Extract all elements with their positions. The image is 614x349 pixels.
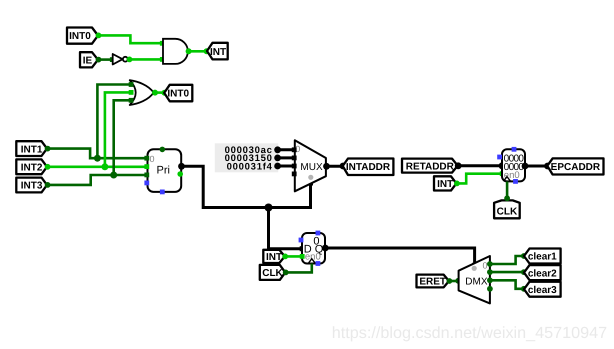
svg-text:DMX: DMX	[465, 276, 488, 287]
tunnel INT (bottom, to FF enable)	[263, 250, 285, 263]
wire DMX out3 to clear3	[487, 277, 527, 291]
svg-text:0: 0	[150, 154, 155, 164]
svg-text:ERET: ERET	[419, 277, 446, 288]
tunnel clear2	[524, 265, 561, 280]
tunnel INT3	[16, 178, 47, 193]
tunnel INT0 (input, top-left)	[67, 28, 98, 44]
svg-text:INTADDR: INTADDR	[346, 162, 391, 173]
Pri right enable-out dot	[177, 171, 183, 177]
svg-text:Pri: Pri	[157, 164, 170, 176]
register port squares	[512, 147, 517, 152]
tunnel ERET	[417, 275, 450, 288]
tunnel IE	[80, 52, 98, 67]
svg-text:https://blog.csdn.net/weixin_4: https://blog.csdn.net/weixin_45710947	[332, 324, 607, 342]
svg-text:CLK: CLK	[497, 206, 518, 217]
constant 00003150	[225, 153, 295, 164]
wire INT0 to AND input 1	[96, 33, 165, 46]
svg-text:INT: INT	[266, 252, 282, 263]
svg-text:0: 0	[313, 235, 319, 247]
tunnel INTADDR	[343, 159, 394, 176]
wire NOT out to AND input 2	[127, 57, 165, 63]
tunnel clear1	[524, 249, 561, 264]
demultiplexer DMX	[459, 256, 490, 303]
wire INT to FF en	[282, 254, 302, 260]
wire vertical INT3 branch to OR in3	[110, 100, 131, 178]
svg-text:0: 0	[483, 260, 488, 270]
wire vertical INT2 branch to OR in2	[101, 92, 131, 170]
svg-text:MUX: MUX	[300, 162, 323, 173]
wire Pri out to MUX select (bus)	[178, 163, 313, 212]
tunnel CLK (right)	[494, 200, 520, 218]
multiplexer MUX	[295, 140, 326, 191]
constant 000030ac	[215, 143, 295, 172]
tunnel INT1	[16, 141, 47, 156]
Pri port squares	[144, 156, 149, 161]
svg-text:clear3: clear3	[528, 285, 557, 296]
tunnel INTO (output of OR)	[164, 85, 192, 102]
wire DMX out1 to clear1	[487, 253, 527, 267]
svg-text:INT1: INT1	[21, 144, 43, 155]
D flip-flop U3	[302, 233, 325, 264]
tunnel clear3	[524, 282, 561, 297]
tunnel CLK (bottom-left)	[260, 265, 286, 280]
tunnel INT2	[16, 159, 47, 174]
wire IE to NOT	[96, 57, 115, 63]
wire OR out to INTO tunnel	[152, 90, 168, 96]
tunnel INT (output)	[207, 43, 228, 60]
svg-text:EPCADDR: EPCADDR	[551, 162, 601, 173]
svg-text:INT: INT	[437, 179, 453, 190]
wire FF Q to DMX select (bus)	[322, 245, 477, 268]
wire RETADDR to register D (bus)	[455, 162, 506, 169]
wire register Q to EPCADDR (bus)	[522, 163, 551, 170]
DMX out4 unconnected dot	[487, 286, 493, 292]
wire INT to register en	[454, 171, 505, 186]
wire INT3 to Pri in3	[45, 175, 147, 188]
svg-text:clear1: clear1	[528, 252, 557, 263]
register EPC	[502, 149, 525, 181]
svg-text:RETADDR: RETADDR	[406, 161, 455, 172]
AND gate U1	[163, 39, 188, 64]
priority encoder Pri	[148, 149, 182, 192]
svg-text:IE: IE	[83, 55, 93, 66]
wire INT1 to Pri in1	[45, 146, 147, 158]
NOT gate (inverter on IE)	[113, 54, 128, 65]
tunnel RETADDR	[402, 159, 458, 173]
svg-text:000031f4: 000031f4	[227, 162, 273, 173]
constant 000031f4	[227, 162, 295, 173]
tunnel EPCADDR	[547, 158, 603, 174]
MUX input squares	[292, 147, 297, 152]
svg-text:INT: INT	[210, 47, 226, 58]
wire DMX out2 to clear2	[487, 269, 527, 275]
svg-text:clear2: clear2	[528, 268, 557, 279]
wire CLK to FF clock	[283, 264, 312, 276]
tunnel INT (right, to register enable)	[434, 176, 456, 190]
wire AND out to INT tunnel	[186, 48, 210, 54]
wire CLK to register clock	[504, 182, 510, 202]
svg-text:CLK: CLK	[262, 268, 283, 279]
svg-text:INT0: INT0	[69, 31, 91, 42]
svg-text:INT2: INT2	[21, 163, 43, 174]
svg-text:INT0: INT0	[167, 89, 189, 100]
wire vertical INT1 branch to OR in1	[94, 85, 131, 162]
FF port squares	[316, 231, 321, 236]
wire MUX out to INTADDR	[323, 163, 346, 170]
wire INT2 to Pri in2	[45, 164, 147, 170]
wire ERET to DMX input	[447, 278, 462, 284]
wire junction down to FF D input (bus)	[269, 208, 305, 252]
OR input squares	[129, 82, 134, 87]
svg-text:INT3: INT3	[21, 181, 43, 192]
OR gate U2	[130, 80, 154, 105]
Pri top enable dot	[160, 147, 166, 153]
